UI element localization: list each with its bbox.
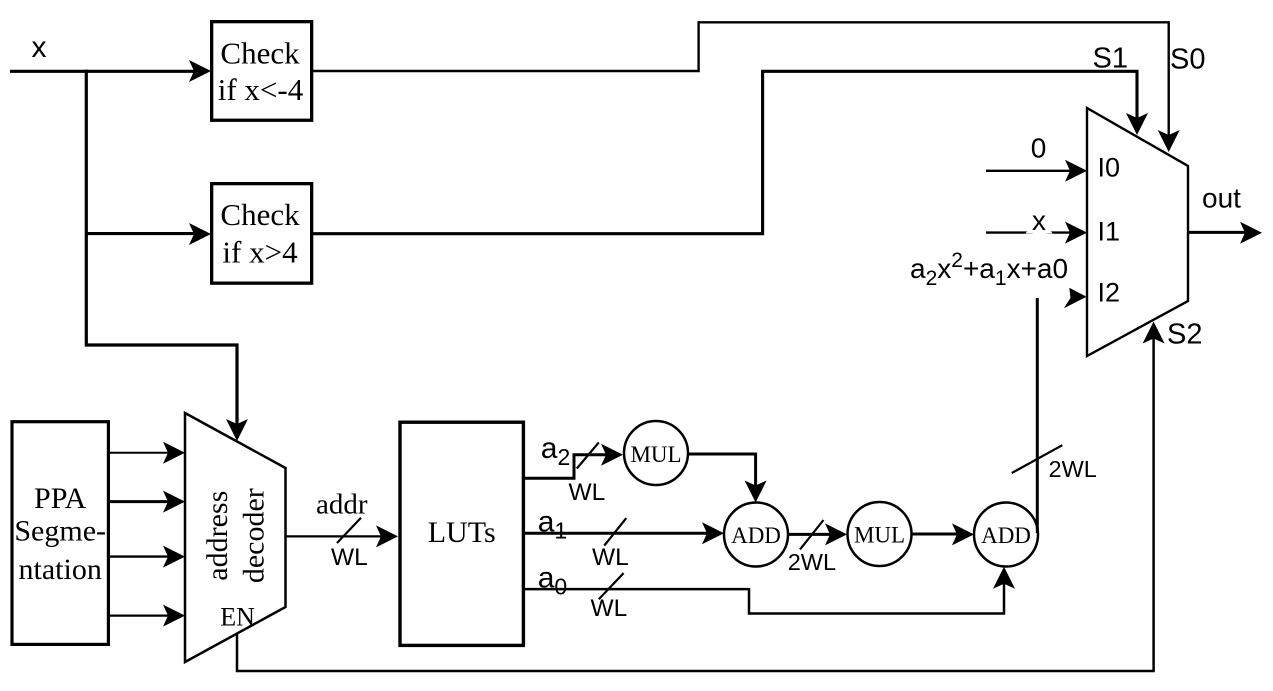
svg-text:decoder: decoder — [238, 488, 271, 583]
svg-text:ntation: ntation — [19, 553, 102, 586]
svg-text:ADD: ADD — [731, 523, 781, 548]
svg-text:0: 0 — [1031, 133, 1047, 164]
svg-text:x: x — [32, 31, 47, 64]
svg-text:I0: I0 — [1098, 153, 1121, 183]
svg-text:S0: S0 — [1170, 44, 1205, 76]
svg-text:ADD: ADD — [981, 523, 1031, 548]
svg-text:addr: addr — [316, 489, 368, 521]
svg-text:Check: Check — [220, 197, 300, 232]
svg-text:x: x — [1032, 205, 1046, 236]
svg-text:if x>4: if x>4 — [222, 234, 298, 269]
svg-text:EN: EN — [220, 602, 255, 631]
svg-text:I2: I2 — [1098, 277, 1121, 307]
svg-text:MUL: MUL — [854, 523, 905, 548]
svg-text:LUTs: LUTs — [428, 516, 496, 549]
svg-text:S2: S2 — [1167, 319, 1202, 351]
svg-text:WL: WL — [331, 544, 368, 571]
svg-text:address: address — [201, 491, 234, 581]
svg-text:S1: S1 — [1093, 43, 1128, 75]
svg-text:I1: I1 — [1098, 216, 1121, 246]
svg-text:MUL: MUL — [630, 442, 681, 467]
svg-text:out: out — [1202, 183, 1241, 214]
svg-text:WL: WL — [569, 479, 606, 506]
svg-text:2WL: 2WL — [788, 549, 836, 575]
svg-text:Segme-: Segme- — [14, 515, 106, 548]
svg-text:WL: WL — [592, 544, 629, 571]
svg-text:if x<-4: if x<-4 — [218, 72, 304, 107]
svg-text:2WL: 2WL — [1049, 456, 1097, 482]
svg-text:PPA: PPA — [34, 482, 87, 515]
svg-text:WL: WL — [591, 595, 628, 622]
svg-text:Check: Check — [220, 36, 300, 71]
